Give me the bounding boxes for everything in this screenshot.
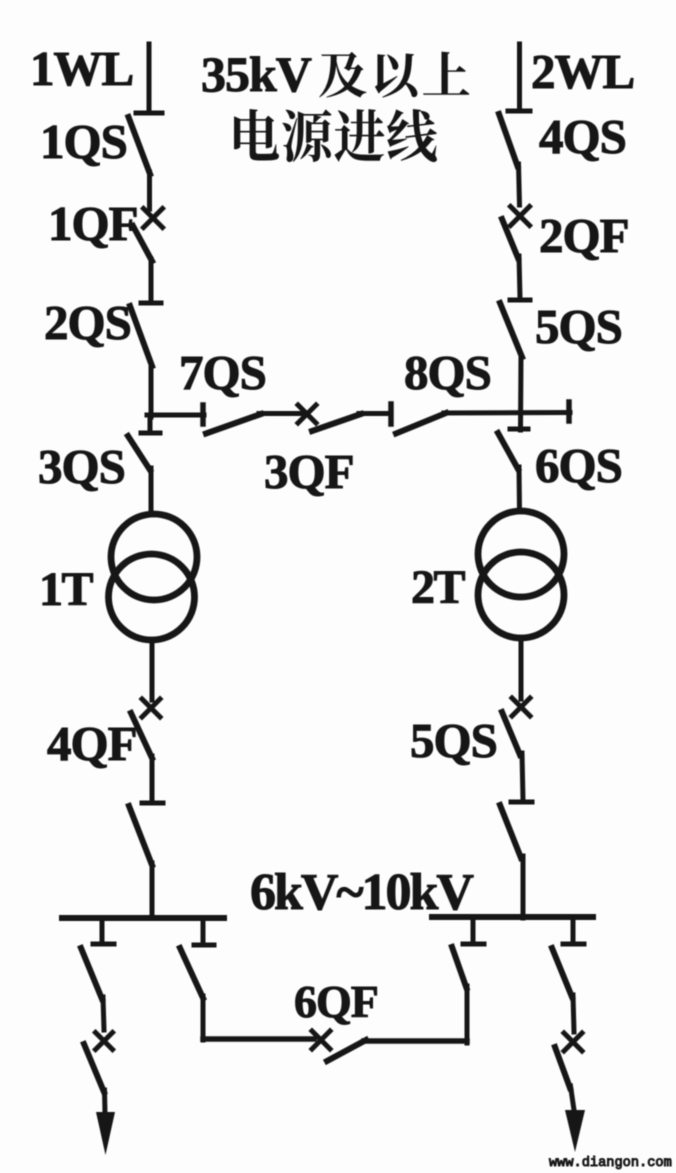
disconnector 3QS fixed contact	[141, 431, 160, 436]
svg-text:1QS: 1QS	[40, 114, 127, 169]
title char 以	[375, 54, 418, 98]
wire down right	[522, 753, 523, 800]
right feeder 2 stub	[571, 917, 576, 942]
disconnector 3QS blade	[128, 436, 150, 470]
disconnector 2QS fixed contact	[141, 301, 161, 306]
wire 2QF to 5QS	[519, 256, 520, 298]
disconnector 4QS fixed contact	[508, 109, 530, 114]
wire 1QF to 2QS	[149, 259, 154, 301]
right 35kV bus end tick	[566, 402, 572, 421]
svg-text:5QS: 5QS	[410, 713, 497, 768]
left tie feeder stub	[201, 918, 206, 943]
right feeder 2 wire	[573, 995, 574, 1032]
left feeder 1 stub	[100, 918, 105, 942]
breaker 2QF blade	[502, 219, 518, 258]
title char 源	[282, 109, 331, 162]
right tie elbow wire	[364, 1038, 467, 1044]
wire 4QS to 2QF	[519, 164, 520, 205]
svg-text:8QS: 8QS	[404, 345, 491, 400]
right LV breaker X mark	[512, 698, 530, 716]
wire to right 6kV bus	[521, 856, 526, 918]
left tie elbow wire	[203, 1036, 314, 1042]
left feeder 1 disconnector blade	[81, 948, 102, 999]
right LV breaker blade	[502, 712, 520, 755]
svg-text:1T: 1T	[39, 563, 94, 616]
svg-text:www.diangon.com: www.diangon.com	[549, 1156, 672, 1171]
wire 1WL incoming	[147, 44, 152, 111]
breaker 2QF X mark	[511, 207, 530, 226]
disconnector 8QS fixed contact	[388, 404, 394, 424]
svg-text:2WL: 2WL	[531, 44, 634, 99]
wire 2WL incoming	[517, 44, 522, 110]
left feeder 1 arrow head	[96, 1112, 115, 1155]
title char 进	[334, 109, 384, 162]
wire left 35kV bus	[147, 413, 204, 418]
title char 及	[319, 52, 366, 98]
breaker 1QF X mark	[144, 209, 163, 228]
right LV disconnector blade	[500, 805, 521, 858]
svg-text:2QS: 2QS	[44, 295, 131, 350]
breaker 3QF blade	[312, 414, 361, 431]
wire 1T to 4QF	[150, 640, 155, 700]
right tie wire up	[465, 986, 470, 1043]
right LV disconnector fixed contact	[511, 800, 532, 805]
busbar 6kV right	[432, 914, 593, 920]
right tie feeder fixed contact	[463, 942, 484, 947]
left feeder 1 lower blade	[84, 1044, 104, 1092]
svg-text:5QS: 5QS	[535, 299, 622, 354]
disconnector 6QS blade	[498, 433, 518, 469]
title char 线	[387, 109, 437, 162]
wire 2T down	[519, 638, 524, 699]
wire 2QS to bus	[149, 364, 154, 417]
wire 3QS to 1T	[149, 468, 154, 514]
breaker 4QF X mark	[142, 699, 160, 717]
disconnector 4QS blade	[499, 114, 518, 166]
disconnector 7QS blade	[206, 414, 261, 434]
svg-text:4QS: 4QS	[539, 109, 626, 164]
left feeder 1 breaker X mark	[96, 1033, 113, 1050]
disconnector 5QS blade	[500, 303, 522, 357]
wire 3QF to 8QS	[359, 411, 390, 416]
svg-text:7QS: 7QS	[179, 345, 266, 400]
busbar 6kV left	[62, 915, 224, 921]
right feeder 2 lower blade	[555, 1047, 570, 1088]
right feeder 2 outgoing wire	[571, 1086, 575, 1110]
right feeder 2 breaker X mark	[564, 1033, 582, 1051]
breaker 6QF blade	[327, 1040, 366, 1061]
transformer 1T secondary winding	[109, 554, 195, 640]
svg-text:1QF: 1QF	[48, 196, 138, 251]
breaker 4QF blade	[131, 713, 152, 758]
disconnector 7QS fixed contact	[200, 405, 206, 424]
svg-text:2T: 2T	[411, 561, 466, 614]
transformer 2T primary winding	[478, 511, 564, 597]
wire right 35kV bus	[444, 410, 570, 416]
left feeder 1 fixed contact	[93, 942, 114, 947]
left LV disconnector blade	[129, 806, 152, 865]
breaker 1QF blade	[133, 226, 152, 261]
disconnector 2QS blade	[130, 306, 152, 366]
svg-text:6QS: 6QS	[535, 438, 622, 493]
right tie feeder stub	[471, 917, 476, 942]
wire 5QS to bus	[518, 355, 524, 430]
wire bus to 3QS	[148, 415, 153, 430]
right feeder 2 arrow head	[565, 1110, 585, 1152]
left tie wire down	[201, 996, 206, 1040]
wire 6QS to 2T	[517, 467, 523, 511]
svg-text:35kV: 35kV	[201, 46, 312, 102]
disconnector 1QS fixed contact	[136, 111, 162, 116]
svg-text:1WL: 1WL	[30, 41, 133, 96]
right feeder 2 disconnector blade	[552, 948, 572, 997]
disconnector 1QS blade	[129, 117, 151, 174]
title char 电	[234, 109, 279, 160]
title char 上	[423, 52, 469, 95]
left tie disconnector blade	[180, 948, 203, 998]
disconnector 8QS blade	[396, 413, 446, 434]
svg-text:3QF: 3QF	[264, 444, 354, 499]
svg-text:6QF: 6QF	[294, 976, 378, 1027]
svg-text:6kV~10kV: 6kV~10kV	[250, 864, 473, 921]
svg-text:2QF: 2QF	[539, 208, 629, 263]
wire 4QF down	[150, 756, 155, 801]
wire 7QS to 3QF	[259, 411, 301, 416]
disconnector 6QS fixed contact	[510, 427, 528, 432]
wire to left 6kV bus	[150, 863, 155, 918]
left feeder 1 outgoing wire	[102, 1090, 108, 1114]
svg-text:3QS: 3QS	[38, 439, 125, 494]
wire 1QS to 1QF	[147, 172, 152, 209]
svg-text:4QF: 4QF	[47, 716, 137, 771]
right tie disconnector blade	[452, 947, 467, 988]
left LV disconnector fixed contact	[142, 801, 163, 806]
left feeder 1 wire	[103, 997, 104, 1030]
breaker 3QF X mark	[298, 405, 316, 423]
transformer 2T secondary winding	[478, 552, 564, 638]
disconnector 5QS fixed contact	[510, 298, 530, 303]
right feeder 2 fixed contact	[563, 942, 584, 947]
transformer 1T primary winding	[111, 514, 197, 600]
breaker 6QF X mark	[312, 1031, 330, 1049]
left tie feeder fixed contact	[194, 943, 214, 948]
